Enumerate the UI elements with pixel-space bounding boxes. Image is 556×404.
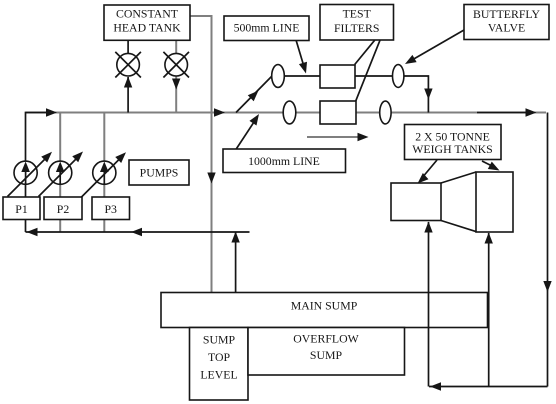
arrowhead: main line after junction (right) (214, 108, 225, 116)
wire: left head-tank valve stem lower (127, 77, 129, 113)
arrowhead: main line right end (526, 108, 537, 116)
label box P1 (3, 197, 40, 220)
svg-text:FILTERS: FILTERS (334, 21, 379, 35)
wire: left head-tank valve stem upper (127, 40, 129, 54)
test filter upper box (320, 65, 355, 88)
label box PUMPS (129, 160, 189, 185)
label box CONSTANT HEAD TANK (104, 5, 190, 40)
leader arrow from BUTTERFLY VALVE label (403, 30, 464, 68)
weigh tank transition bottom slant (441, 221, 476, 232)
svg-text:HEAD TANK: HEAD TANK (113, 21, 181, 35)
leader arrow from 1000mm LINE label (236, 112, 262, 149)
wire: 500mm line segment valve to corner and down to main line (404, 76, 429, 113)
arrowhead: down on 500mm rejoin leg (424, 89, 432, 100)
wire: gray pipe from constant head tank right side down to main sump (190, 16, 212, 293)
wire: suction riser from main sump (235, 232, 237, 293)
svg-text:CONSTANT: CONSTANT (116, 7, 179, 21)
svg-text:P3: P3 (104, 202, 117, 216)
arrowhead: right valve stem (down) (172, 79, 180, 90)
arrowhead: bottom return line (left) (430, 382, 441, 390)
label box P2 (44, 197, 82, 220)
wire: weigh tank right feed line (488, 233, 490, 387)
wire: pump P3 column (gray) (103, 113, 105, 233)
butterfly valve ellipse on 500mm line (393, 65, 404, 88)
label box 1000mm LINE (223, 149, 346, 173)
wire: black start of main line with P1 column (26, 113, 50, 233)
wire: 500mm line diagonal branch (236, 76, 272, 113)
leader arrow from 500mm LINE label (296, 41, 310, 75)
svg-text:P1: P1 (15, 202, 28, 216)
svg-text:SUMP: SUMP (203, 333, 236, 347)
label box 500mm LINE (224, 16, 309, 41)
arrowhead: down on right return leg (543, 281, 551, 292)
wire: main 1000mm line (horizontal) (26, 112, 547, 114)
wire: pump P2 column (gray) (59, 113, 61, 233)
svg-text:VALVE: VALVE (488, 21, 525, 35)
wire: right side return leg down (547, 113, 549, 387)
test filter lower box (320, 101, 356, 124)
arrowhead: weigh tank left feed (up) (424, 222, 432, 233)
arrowhead: flow direction arrow (358, 133, 369, 141)
valve ellipse on 1000mm line (left) (283, 101, 296, 124)
arrowhead: suction line left mid (131, 228, 142, 236)
svg-text:500mm LINE: 500mm LINE (234, 21, 300, 35)
leader line from TEST FILTERS to lower filter (356, 40, 380, 101)
arrowhead: main line start (right) (46, 108, 57, 116)
weigh tank left box (391, 183, 441, 221)
svg-text:OVERFLOW: OVERFLOW (293, 332, 359, 346)
weigh tank transition top slant (441, 172, 476, 183)
svg-text:P2: P2 (57, 202, 70, 216)
leader arrow from WEIGH TANKS label to right tank (482, 161, 501, 174)
svg-text:MAIN SUMP: MAIN SUMP (291, 299, 358, 313)
svg-text:1000mm LINE: 1000mm LINE (248, 154, 320, 168)
valve ellipse on 1000mm line (right) (380, 101, 391, 124)
label box TEST FILTERS (320, 5, 394, 41)
valve (circle-X) right under head tank (163, 52, 189, 78)
svg-text:TOP: TOP (208, 350, 231, 364)
pump P2 symbol (39, 149, 86, 197)
valve ellipse on 500mm line (left) (272, 65, 285, 88)
wire: 500mm line segment ellipse to upper filter (284, 75, 320, 77)
wire: right head-tank valve stem (gray) (175, 40, 177, 113)
overflow sump box (248, 328, 405, 376)
wire: flow direction arrow stem below line (307, 136, 359, 138)
wire: weigh tank left feed line (428, 222, 430, 387)
pump P1 symbol (8, 149, 55, 197)
arrowhead: suction riser (up) (231, 232, 239, 243)
svg-text:BUTTERFLY: BUTTERFLY (473, 7, 540, 21)
leader line from TEST FILTERS to upper filter (355, 40, 375, 64)
label box BUTTERFLY VALVE (464, 5, 549, 40)
svg-text:LEVEL: LEVEL (200, 368, 237, 382)
svg-text:WEIGH TANKS: WEIGH TANKS (412, 142, 492, 156)
wire: pump suction return line (26, 231, 250, 233)
weigh tank right box (476, 172, 513, 232)
arrowhead: weigh tank right feed (up) (485, 233, 493, 244)
svg-text:SUMP: SUMP (310, 348, 343, 362)
valve (circle-X) left under head tank (115, 52, 141, 78)
wire: bottom return line (429, 386, 548, 388)
svg-text:PUMPS: PUMPS (140, 166, 179, 180)
wire: 500mm line segment filter to butterfly valve (355, 75, 393, 77)
wire: black overlay at right end of main line (477, 112, 527, 114)
label box P3 (92, 197, 130, 220)
arrowhead: head tank pipe down mid (207, 173, 215, 184)
arrowhead: on 500mm diagonal branch (248, 88, 262, 102)
arrowhead: left valve stem (up) (124, 77, 132, 88)
svg-text:TEST: TEST (343, 7, 372, 21)
pump P3 symbol (82, 149, 129, 197)
leader arrow from WEIGH TANKS label to left tank (415, 160, 437, 187)
main sump box (161, 293, 488, 328)
arrowhead: suction line left near P1 (27, 228, 38, 236)
sump top level box (190, 328, 249, 401)
label box 2 X 50 TONNE WEIGH TANKS (405, 125, 502, 160)
